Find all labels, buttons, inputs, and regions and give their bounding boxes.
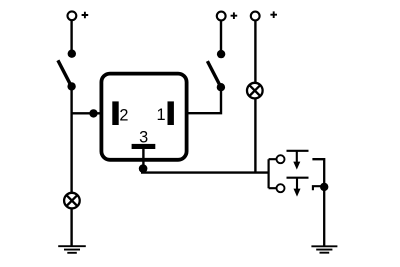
wire pin 3 down through case — [142, 149, 144, 169]
wire: pin-3 bus to turn switch — [141, 171, 269, 173]
wire S2 to relay pin 1 — [188, 87, 221, 113]
node: switch S2 upper contact — [217, 50, 225, 58]
junction node at relay pin 2 — [89, 109, 97, 117]
relay pin 3 contact bar — [132, 144, 156, 149]
svg-text:2: 2 — [119, 106, 128, 124]
wire: upper contact to ground rail — [312, 159, 324, 246]
junction node under relay — [139, 164, 148, 173]
terminal P2 (+) top-middle — [217, 12, 237, 21]
pin label 2 — [119, 106, 128, 124]
switch S1 blade — [58, 60, 71, 86]
S3 moving contact upper (circle) — [277, 155, 285, 163]
terminal P1 (+) top-left — [68, 11, 89, 20]
ground GND2 (right) — [311, 246, 337, 252]
wire lamp H2 down to bus — [254, 99, 256, 173]
wire S1 down to lamp H1 — [70, 86, 72, 192]
wire P2 to switch S2 — [220, 21, 222, 55]
svg-text:3: 3 — [139, 128, 148, 146]
lamp H1 (indicator) — [64, 193, 80, 209]
pin label 3 — [139, 128, 148, 146]
node: switch S1 upper contact — [68, 50, 76, 58]
lamp H2 (indicator) — [247, 83, 263, 99]
wire P3 to lamp H2 — [254, 21, 256, 83]
S3 fixed contact upper bar — [287, 150, 309, 152]
ground GND1 (left) — [58, 246, 86, 253]
node: switch S2 lower contact — [217, 83, 225, 91]
node: switch S1 lower contact — [67, 82, 75, 90]
S3 lower actuation arrow — [294, 178, 301, 197]
wire: lower contact stub to ground rail — [313, 186, 322, 190]
terminal P3 (+) top-right — [251, 11, 277, 20]
wire lamp H1 to ground — [70, 209, 72, 246]
S3 moving contact lower (circle) — [277, 184, 285, 192]
S3 upper actuation arrow — [293, 151, 300, 170]
svg-text:1: 1 — [157, 106, 166, 124]
turn-signal switch S3 rotor bracket — [269, 159, 277, 188]
relay pin 2 contact bar — [112, 101, 118, 125]
relay pin 1 contact bar — [168, 101, 174, 125]
S3 fixed contact lower bar — [287, 177, 309, 179]
junction node on ground rail — [320, 183, 328, 191]
wire branch to relay pin 2 — [72, 112, 100, 114]
wire P1 to switch S1 — [70, 20, 72, 53]
relay K1 (flasher unit) body — [101, 74, 186, 160]
switch S2 blade — [207, 61, 220, 87]
pin label 1 — [157, 106, 166, 124]
